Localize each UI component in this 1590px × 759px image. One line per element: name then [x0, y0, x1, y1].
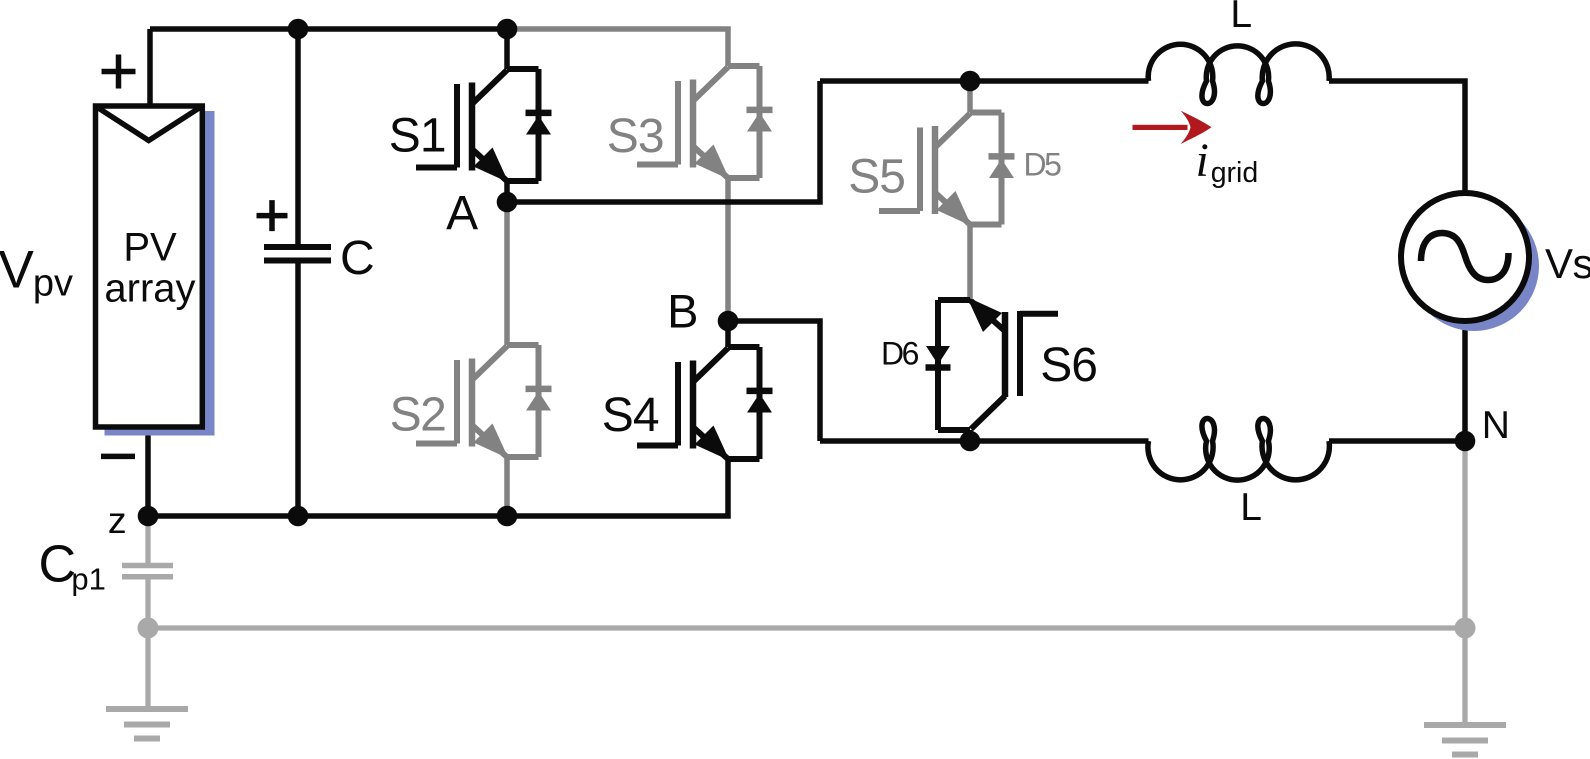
svg-text:D5: D5 — [1024, 147, 1062, 183]
svg-text:PV: PV — [123, 226, 177, 270]
svg-text:Cp1: Cp1 — [39, 535, 106, 596]
wire: S3 emitter down to node B — [725, 178, 731, 321]
svg-text:B: B — [667, 285, 698, 338]
node A — [497, 192, 518, 213]
wire: inductor L top to Vs — [1329, 81, 1465, 193]
svg-text:grid: grid — [1211, 157, 1259, 189]
transistor S3 — [637, 66, 773, 180]
wire: node B to S4 collector — [725, 321, 731, 347]
wire: S1 emitter to node A — [504, 181, 510, 202]
junction: rail-left — [138, 618, 159, 639]
wire: Cp1 to left ground — [145, 579, 150, 709]
inductor L bottom — [1148, 419, 1330, 481]
node: S5 top — [960, 71, 981, 92]
svg-text:L: L — [1230, 0, 1252, 36]
svg-text:S2: S2 — [390, 389, 446, 442]
svg-text:S3: S3 — [607, 110, 664, 163]
source Vs shadow — [1409, 201, 1539, 331]
transistor S5 — [879, 113, 1015, 227]
wire: A to S2 collector — [504, 202, 510, 345]
svg-text:S4: S4 — [602, 389, 659, 442]
wire: DC+ top rail — [150, 26, 507, 32]
svg-text:N: N — [1482, 404, 1510, 447]
wire: lower AC rail — [820, 438, 1149, 444]
ground right — [1424, 725, 1506, 755]
ground left — [106, 709, 188, 739]
capacitor C — [264, 247, 331, 261]
wire: lower rail inductor to N — [1329, 438, 1465, 444]
wire: C bottom — [295, 262, 301, 516]
node N — [1455, 431, 1476, 452]
wire: upper AC rail — [820, 78, 1149, 84]
wire: Vs to node N — [1462, 320, 1468, 441]
svg-text:D6: D6 — [881, 336, 919, 372]
wire: z node down to Cp1 — [145, 516, 150, 563]
wire: node top-right to S5 collector — [967, 81, 973, 113]
wire: node A to S5 branch — [507, 81, 820, 202]
junction: rail-right — [1455, 618, 1476, 639]
inductor L top — [1148, 44, 1329, 104]
wire: PV - to node z — [145, 424, 151, 516]
node: top cap — [288, 19, 309, 40]
svg-text:S6: S6 — [1040, 339, 1097, 392]
wire: S1 collector — [504, 29, 510, 69]
wire: top rail gray segment to S3 — [507, 29, 728, 66]
wire: top rail to PV + — [147, 29, 153, 107]
wire: S2 emitter to bottom rail — [504, 457, 510, 516]
node z — [138, 506, 159, 527]
sine wave — [1421, 233, 1509, 280]
svg-text:array: array — [104, 267, 195, 311]
svg-text:i: i — [1196, 134, 1209, 187]
transistor S6 — [926, 297, 1059, 430]
wire: N down to right ground — [1462, 441, 1467, 723]
wire: C top — [295, 29, 301, 246]
wire: parasitic ground rail — [148, 625, 1465, 630]
label: PV array — [104, 226, 195, 311]
svg-text:A: A — [446, 187, 478, 240]
capacitor Cp1 — [122, 566, 173, 577]
wire: node B to S6 branch — [728, 321, 820, 441]
transistor S4 — [637, 347, 773, 461]
current igrid arrow — [1133, 111, 1212, 145]
transistor S1 — [416, 69, 552, 183]
node B — [718, 311, 739, 332]
transistor S2 — [416, 345, 552, 459]
label: plus C — [257, 200, 288, 231]
label: plus PV — [102, 55, 136, 89]
wire: DC- bottom rail — [148, 459, 728, 516]
svg-text:L: L — [1240, 486, 1262, 529]
node: S6 bottom — [960, 431, 981, 452]
label: minus PV — [101, 454, 135, 460]
svg-text:S1: S1 — [389, 110, 446, 163]
pv array PV — [96, 106, 203, 427]
svg-text:S5: S5 — [848, 151, 905, 204]
node: top S1 — [497, 19, 518, 40]
node: bottom cap — [288, 506, 309, 527]
wire: S5 emitter to S6 — [967, 225, 973, 301]
svg-text:Vpv: Vpv — [0, 241, 73, 305]
svg-text:Vs: Vs — [1545, 240, 1590, 287]
pv array shadow — [105, 111, 215, 436]
node: bottom S2 — [497, 506, 518, 527]
source Vs — [1401, 193, 1529, 321]
wire: S6 emitter wire — [967, 430, 973, 441]
svg-text:z: z — [108, 499, 127, 541]
svg-text:C: C — [340, 232, 375, 285]
